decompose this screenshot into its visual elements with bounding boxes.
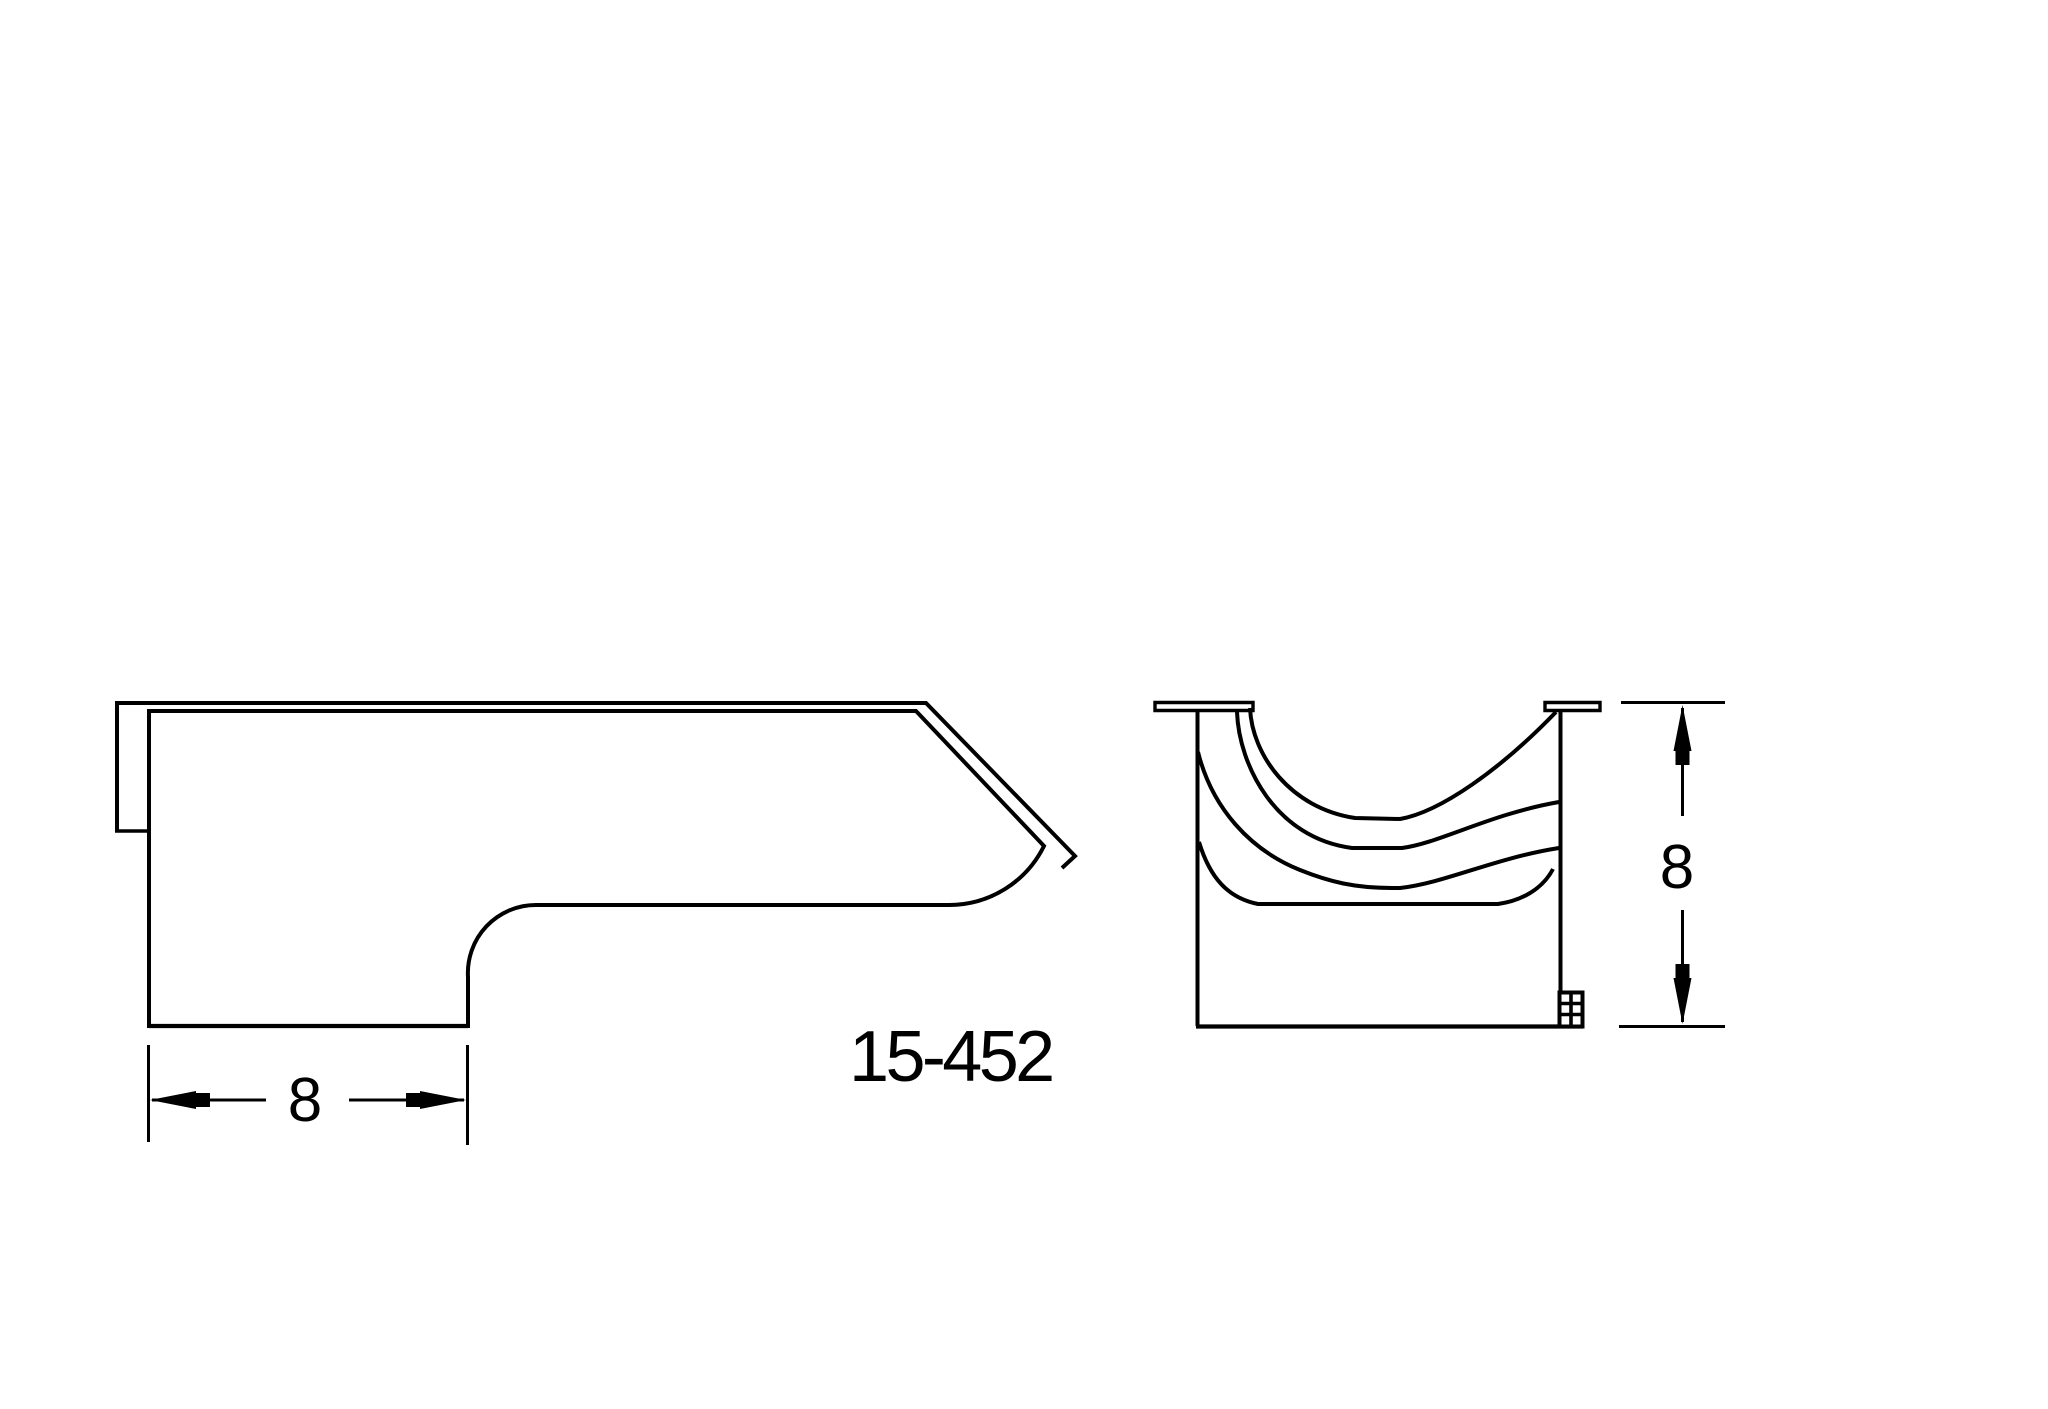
dimension arrow left (points left) [150, 1091, 196, 1109]
svg-text:15-452: 15-452 [849, 1017, 1052, 1097]
svg-text:8: 8 [288, 1066, 322, 1135]
left view: outer flange rail top line with 45deg sump diagonal and end cap [117, 703, 1075, 868]
vertical dimension line upper segment [1681, 708, 1684, 816]
dimension line right segment [349, 1099, 464, 1102]
right view: sump contour curve 4 (outermost, flat bottom) [1199, 842, 1553, 904]
dimension arrow right (points right) [420, 1091, 466, 1109]
left view: inner pan profile (top, diagonal, tail arc, shallow bottom, step arc, deep bottom, front wall) [149, 711, 1044, 1026]
right view: left wall [1196, 711, 1200, 1026]
vertical dimension arrow down [1674, 978, 1692, 1024]
right view: sump contour curve 2 [1237, 712, 1559, 848]
left view: bottom line overdraw (thicker) [149, 1024, 468, 1028]
dimension line left segment [152, 1099, 266, 1102]
vertical dimension arrow up [1674, 705, 1692, 751]
right view: right wall [1559, 711, 1563, 1026]
vertical dimension line lower segment [1681, 910, 1684, 1022]
right view: pan bottom [1196, 1024, 1583, 1028]
left view: flange lip bottom [115, 829, 149, 832]
dimension: left extension line [147, 1045, 150, 1142]
vertical dimension: bottom extension line [1619, 1025, 1725, 1028]
right view: drain plug (cross-hatched) [1560, 993, 1583, 1027]
right view: right flange rail [1545, 703, 1600, 711]
right view: sump contour curve 3 [1198, 752, 1559, 888]
svg-text:8: 8 [1660, 833, 1694, 902]
right view: left flange rail [1155, 703, 1253, 711]
dimension: right extension line [466, 1045, 469, 1145]
vertical dimension: top extension line [1621, 701, 1725, 704]
right view: sump contour curve 1 (innermost) [1250, 708, 1556, 819]
